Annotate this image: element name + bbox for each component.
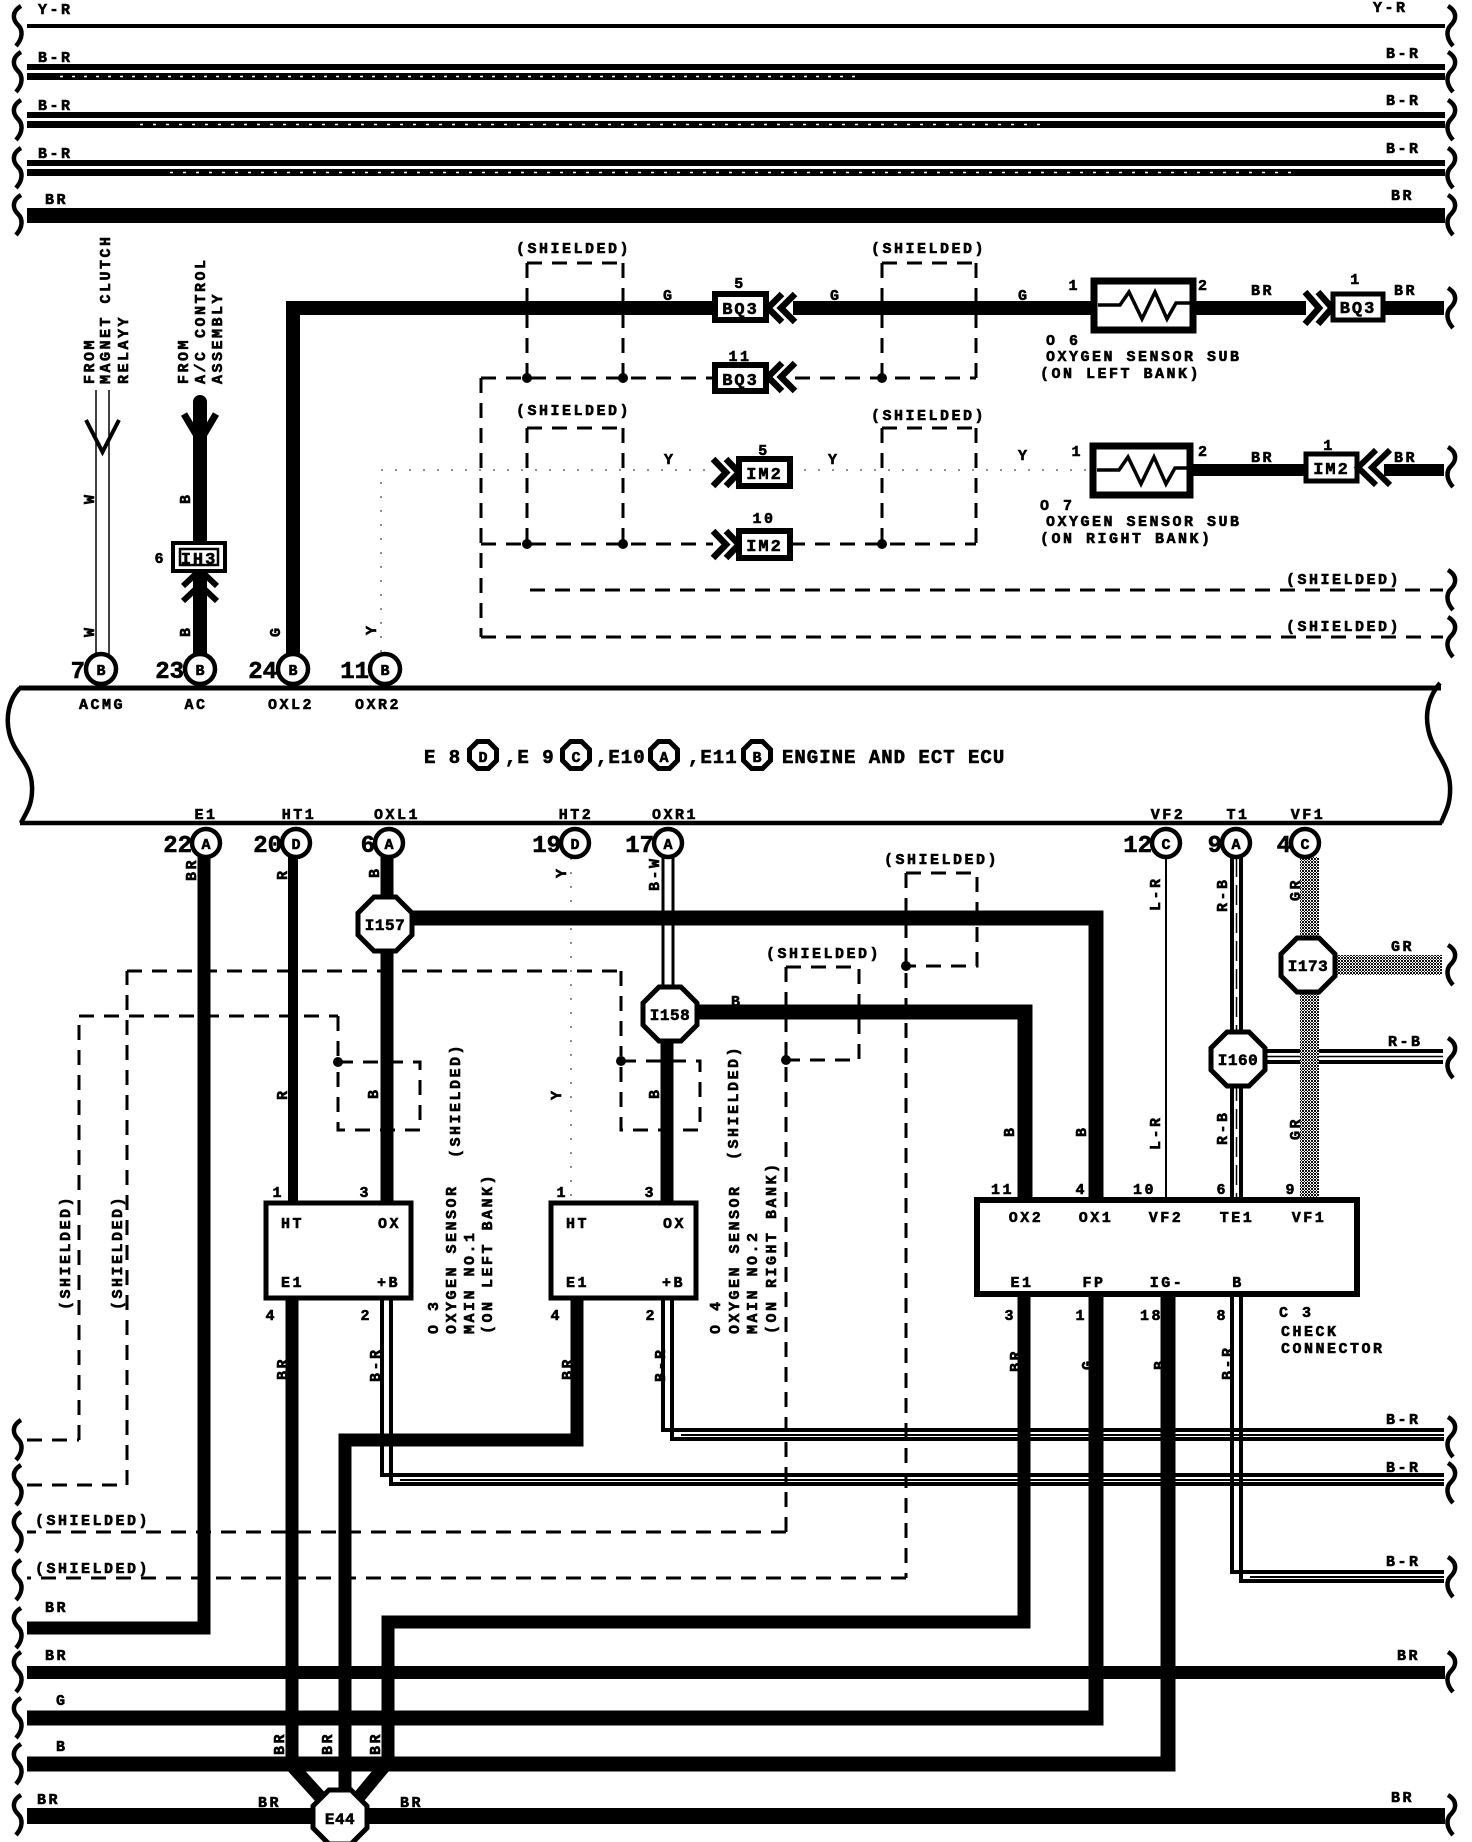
svg-text:12: 12 (1123, 833, 1152, 860)
svg-text:(SHIELDED): (SHIELDED) (871, 408, 986, 425)
svg-text:B: B (1232, 1275, 1244, 1292)
svg-text:B: B (56, 1739, 68, 1756)
svg-text:2: 2 (645, 1308, 657, 1325)
svg-text:B: B (96, 663, 105, 680)
svg-text:2: 2 (1198, 278, 1210, 295)
svg-text:BR: BR (560, 1357, 577, 1380)
svg-text:(SHIELDED): (SHIELDED) (448, 1043, 465, 1158)
svg-text:A: A (659, 750, 668, 767)
svg-text:B-R: B-R (1386, 1412, 1421, 1429)
svg-text:OXR2: OXR2 (355, 697, 401, 714)
svg-text:I157: I157 (365, 917, 405, 935)
svg-text:(SHIELDED): (SHIELDED) (726, 1045, 743, 1160)
svg-text:OXYGEN SENSOR: OXYGEN SENSOR (727, 1184, 744, 1334)
svg-text:9: 9 (1208, 833, 1222, 860)
svg-text:IG-: IG- (1150, 1275, 1185, 1292)
svg-text:22: 22 (163, 833, 192, 860)
svg-text:9: 9 (1285, 1182, 1297, 1199)
svg-text:D: D (478, 750, 487, 767)
svg-text:OX: OX (663, 1216, 686, 1233)
svg-text:B: B (178, 492, 195, 504)
svg-text:ACMG: ACMG (79, 697, 125, 714)
svg-text:C: C (571, 750, 580, 767)
svg-text:(SHIELDED): (SHIELDED) (516, 241, 631, 258)
svg-text:1: 1 (556, 1185, 568, 1202)
svg-text:B-R: B-R (38, 98, 73, 115)
svg-text:G: G (830, 288, 842, 305)
svg-text:(SHIELDED): (SHIELDED) (766, 946, 881, 963)
svg-text:(SHIELDED): (SHIELDED) (871, 241, 986, 258)
svg-text:BR: BR (258, 1795, 281, 1812)
svg-text:(ON RIGHT BANK): (ON RIGHT BANK) (1040, 531, 1213, 548)
svg-text:VF1: VF1 (1292, 1210, 1327, 1227)
svg-text:IM2: IM2 (746, 466, 783, 485)
svg-text:8: 8 (1216, 1308, 1228, 1325)
svg-text:Y: Y (828, 452, 840, 469)
svg-text:BR: BR (400, 1795, 423, 1812)
svg-text:IH3: IH3 (181, 551, 218, 570)
svg-text:+B: +B (662, 1275, 685, 1292)
svg-text:B: B (647, 1087, 664, 1099)
svg-text:B: B (195, 663, 204, 680)
svg-text:E1: E1 (281, 1275, 304, 1292)
svg-text:1: 1 (1071, 444, 1083, 461)
svg-text:R: R (275, 868, 292, 880)
svg-text:4: 4 (1277, 833, 1291, 860)
svg-text:BR: BR (1008, 1349, 1025, 1372)
svg-text:R-B: R-B (1388, 1034, 1423, 1051)
svg-text:(ON LEFT BANK): (ON LEFT BANK) (1040, 366, 1201, 383)
svg-text:,E10: ,E10 (596, 747, 646, 769)
svg-text:B: B (178, 625, 195, 637)
svg-text:W: W (82, 625, 99, 637)
svg-text:RELAYY: RELAYY (116, 315, 133, 384)
svg-text:A: A (1231, 837, 1240, 854)
svg-text:G: G (56, 1693, 68, 1710)
svg-text:BR: BR (45, 1648, 68, 1665)
svg-text:A: A (384, 837, 393, 854)
svg-text:B-R: B-R (1386, 1554, 1421, 1571)
svg-text:1: 1 (1075, 1308, 1087, 1325)
svg-text:(SHIELDED): (SHIELDED) (110, 1195, 127, 1310)
svg-text:FROM: FROM (176, 338, 193, 384)
svg-text:O 6: O 6 (1046, 333, 1081, 350)
svg-text:10: 10 (752, 511, 775, 528)
svg-text:AC: AC (184, 697, 207, 714)
svg-text:BQ3: BQ3 (1340, 300, 1377, 319)
svg-text:B-R: B-R (1386, 46, 1421, 63)
svg-text:G: G (268, 625, 285, 637)
svg-text:20: 20 (253, 833, 282, 860)
svg-text:A: A (663, 837, 672, 854)
svg-text:E44: E44 (325, 1811, 355, 1829)
svg-text:Y: Y (549, 1088, 566, 1100)
svg-text:R: R (275, 1088, 292, 1100)
svg-text:L-R: L-R (1148, 1115, 1165, 1150)
svg-text:HT: HT (281, 1216, 304, 1233)
svg-text:,E11: ,E11 (688, 747, 738, 769)
svg-text:B-R: B-R (38, 146, 73, 163)
svg-text:(SHIELDED): (SHIELDED) (35, 1561, 150, 1578)
svg-text:11: 11 (991, 1182, 1014, 1199)
svg-text:VF2: VF2 (1149, 1210, 1184, 1227)
svg-text:1: 1 (1068, 278, 1080, 295)
svg-text:L-R: L-R (1148, 876, 1165, 911)
svg-text:E 8: E 8 (424, 747, 461, 769)
svg-text:OXL1: OXL1 (374, 807, 420, 824)
svg-text:A/C CONTROL: A/C CONTROL (193, 257, 210, 384)
svg-text:IM2: IM2 (1313, 461, 1350, 480)
svg-text:E1: E1 (1010, 1275, 1033, 1292)
svg-text:1: 1 (1350, 272, 1362, 289)
svg-text:G: G (663, 288, 675, 305)
svg-text:BR: BR (1397, 1648, 1420, 1665)
svg-text:(SHIELDED): (SHIELDED) (35, 1513, 150, 1530)
svg-text:O 3: O 3 (426, 1299, 443, 1334)
svg-text:BR: BR (45, 1600, 68, 1617)
svg-text:(SHIELDED): (SHIELDED) (58, 1195, 75, 1310)
svg-text:BQ3: BQ3 (722, 372, 759, 391)
svg-text:C: C (1300, 837, 1309, 854)
svg-text:+B: +B (377, 1275, 400, 1292)
svg-text:OXL2: OXL2 (268, 697, 314, 714)
svg-text:B-R: B-R (1386, 93, 1421, 110)
svg-text:BR: BR (37, 1792, 60, 1809)
svg-text:T1: T1 (1226, 807, 1249, 824)
svg-text:OXYGEN SENSOR: OXYGEN SENSOR (444, 1184, 461, 1334)
svg-text:B: B (752, 750, 761, 767)
svg-text:CHECK: CHECK (1281, 1324, 1339, 1341)
svg-text:IM2: IM2 (746, 538, 783, 557)
svg-text:6: 6 (1216, 1182, 1228, 1199)
svg-text:GR: GR (1391, 939, 1414, 956)
svg-text:6: 6 (361, 833, 375, 860)
svg-text:4: 4 (550, 1308, 562, 1325)
svg-text:3: 3 (1004, 1308, 1016, 1325)
svg-text:24: 24 (248, 659, 277, 686)
svg-text:HT2: HT2 (559, 807, 594, 824)
svg-text:BR: BR (45, 192, 68, 209)
svg-text:B: B (288, 663, 297, 680)
svg-text:MAIN NO.2: MAIN NO.2 (745, 1230, 762, 1334)
svg-text:ENGINE AND ECT ECU: ENGINE AND ECT ECU (782, 747, 1005, 769)
svg-text:6: 6 (154, 551, 166, 568)
svg-text:BR: BR (184, 858, 201, 881)
svg-text:HT: HT (566, 1216, 589, 1233)
svg-text:Y: Y (554, 866, 571, 878)
svg-text:FROM: FROM (82, 338, 99, 384)
svg-text:B: B (366, 1087, 383, 1099)
svg-text:11: 11 (728, 349, 751, 366)
svg-text:TE1: TE1 (1220, 1210, 1255, 1227)
svg-text:OXYGEN SENSOR SUB: OXYGEN SENSOR SUB (1046, 514, 1242, 531)
svg-text:Y-R: Y-R (1373, 0, 1408, 17)
svg-text:(SHIELDED): (SHIELDED) (516, 403, 631, 420)
svg-text:3: 3 (359, 1185, 371, 1202)
svg-text:CONNECTOR: CONNECTOR (1281, 1341, 1385, 1358)
svg-text:E1: E1 (566, 1275, 589, 1292)
svg-text:B-R: B-R (1386, 1460, 1421, 1477)
svg-text:B: B (731, 994, 743, 1011)
svg-text:19: 19 (532, 833, 561, 860)
svg-text:4: 4 (265, 1308, 277, 1325)
svg-text:BR: BR (1394, 283, 1417, 300)
svg-text:I158: I158 (650, 1007, 690, 1025)
svg-text:B: B (1002, 1125, 1019, 1137)
svg-text:3: 3 (644, 1185, 656, 1202)
svg-text:2: 2 (1198, 444, 1210, 461)
svg-text:10: 10 (1133, 1182, 1156, 1199)
svg-text:MAGNET CLUTCH: MAGNET CLUTCH (98, 234, 115, 384)
svg-text:ASSEMBLY: ASSEMBLY (210, 292, 227, 384)
svg-text:,E 9: ,E 9 (505, 747, 555, 769)
svg-text:OX1: OX1 (1079, 1210, 1114, 1227)
svg-text:BR: BR (275, 1357, 292, 1380)
svg-text:(SHIELDED): (SHIELDED) (1286, 619, 1401, 636)
svg-text:GR: GR (1288, 878, 1305, 901)
svg-text:BQ3: BQ3 (722, 301, 759, 320)
svg-text:B: B (1074, 1125, 1091, 1137)
svg-text:D: D (291, 837, 300, 854)
svg-text:(SHIELDED): (SHIELDED) (1286, 572, 1401, 589)
svg-text:HT1: HT1 (282, 807, 317, 824)
svg-text:E1: E1 (194, 807, 217, 824)
svg-text:(ON RIGHT BANK): (ON RIGHT BANK) (764, 1161, 781, 1334)
svg-text:G: G (1018, 288, 1030, 305)
svg-text:(SHIELDED): (SHIELDED) (884, 852, 999, 869)
svg-text:BR: BR (1251, 450, 1274, 467)
svg-text:B: B (380, 663, 389, 680)
svg-text:2: 2 (360, 1308, 372, 1325)
svg-text:VF1: VF1 (1291, 807, 1326, 824)
svg-text:Y: Y (364, 623, 381, 635)
svg-text:A: A (201, 837, 210, 854)
svg-text:W: W (82, 492, 99, 504)
svg-text:BR: BR (368, 1732, 385, 1755)
svg-text:C 3: C 3 (1279, 1305, 1314, 1322)
svg-text:1: 1 (1323, 438, 1335, 455)
svg-text:7: 7 (71, 659, 85, 686)
svg-text:11: 11 (340, 659, 369, 686)
svg-text:R-B: R-B (1215, 877, 1232, 912)
svg-text:BR: BR (320, 1732, 337, 1755)
svg-text:OXYGEN SENSOR SUB: OXYGEN SENSOR SUB (1046, 349, 1242, 366)
svg-text:5: 5 (758, 443, 770, 460)
svg-text:BR: BR (1394, 450, 1417, 467)
svg-text:I160: I160 (1218, 1052, 1258, 1070)
svg-text:17: 17 (625, 833, 654, 860)
svg-text:R-B: R-B (1215, 1110, 1232, 1145)
svg-text:Y-R: Y-R (38, 2, 73, 19)
svg-text:B-R: B-R (1220, 1345, 1237, 1380)
svg-text:Y: Y (664, 452, 676, 469)
svg-text:C: C (1161, 837, 1170, 854)
svg-text:4: 4 (1075, 1182, 1087, 1199)
svg-text:B: B (367, 866, 384, 878)
svg-text:18: 18 (1140, 1308, 1163, 1325)
svg-text:D: D (570, 837, 579, 854)
svg-text:B-R: B-R (1386, 141, 1421, 158)
svg-text:OX2: OX2 (1009, 1210, 1044, 1227)
svg-text:B: B (1152, 1358, 1169, 1370)
svg-text:G: G (1080, 1358, 1097, 1370)
svg-text:OXR1: OXR1 (652, 807, 698, 824)
svg-text:I173: I173 (1288, 958, 1328, 976)
svg-text:OX: OX (378, 1216, 401, 1233)
svg-text:Y: Y (1018, 448, 1030, 465)
svg-text:BR: BR (1391, 1790, 1414, 1807)
svg-text:VF2: VF2 (1151, 807, 1186, 824)
svg-text:B-R: B-R (38, 50, 73, 67)
svg-text:BR: BR (1391, 188, 1414, 205)
svg-text:O 7: O 7 (1040, 498, 1075, 515)
svg-text:MAIN NO.1: MAIN NO.1 (462, 1230, 479, 1334)
svg-text:B-R: B-R (653, 1347, 670, 1382)
svg-text:1: 1 (272, 1185, 284, 1202)
svg-text:(ON LEFT BANK): (ON LEFT BANK) (480, 1173, 497, 1334)
svg-text:O 4: O 4 (708, 1299, 725, 1334)
svg-text:23: 23 (155, 659, 184, 686)
svg-text:B-W: B-W (647, 856, 664, 891)
svg-text:5: 5 (734, 276, 746, 293)
svg-text:B-R: B-R (368, 1347, 385, 1382)
svg-text:FP: FP (1082, 1275, 1105, 1292)
svg-text:BR: BR (272, 1732, 289, 1755)
svg-text:BR: BR (1251, 283, 1274, 300)
svg-text:GR: GR (1288, 1117, 1305, 1140)
